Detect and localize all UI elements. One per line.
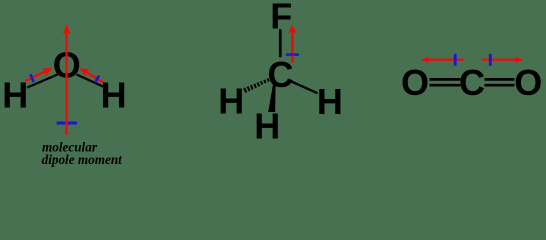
CH3F: C-F bond dipole arrow <box>291 31 294 63</box>
CH3F: solid wedge bond C-H bottom <box>268 83 275 112</box>
svg-text:dipole moment: dipole moment <box>42 152 123 167</box>
water: plus cross on right bond dipole <box>95 76 99 83</box>
svg-text:F: F <box>270 0 292 37</box>
svg-text:H: H <box>254 106 280 147</box>
water: bond dipole arrow left (H to O) <box>25 71 46 81</box>
CH3F: plain bond C-H right <box>290 81 318 93</box>
CH3F: plus cross on dipole <box>286 53 299 56</box>
CO2: bond dipole arrow pointing right <box>482 59 518 61</box>
svg-text:H: H <box>2 75 28 116</box>
svg-text:C: C <box>268 54 294 95</box>
water: plus cross on molecular dipole <box>57 122 77 125</box>
CH3F: hashed wedge bond C-H left <box>244 79 269 93</box>
svg-text:O: O <box>514 62 542 103</box>
water: bond O-H left <box>27 74 58 87</box>
svg-text:H: H <box>317 81 343 122</box>
svg-text:H: H <box>101 75 127 116</box>
CO2: double bond C=O right (upper line) <box>485 78 515 81</box>
CO2: double bond O=C left (upper line) <box>430 78 461 81</box>
water: bond dipole arrow right (H to O) <box>85 71 103 82</box>
CO2: plus cross on left arrow <box>454 54 457 66</box>
CO2: plus cross on right arrow <box>489 54 492 66</box>
CH3F: bond C-F <box>279 29 282 57</box>
water: bond O-H right <box>77 75 104 87</box>
svg-text:O: O <box>401 62 429 103</box>
svg-text:H: H <box>218 81 244 122</box>
CO2: double bond C=O right (lower line) <box>485 84 515 87</box>
svg-text:C: C <box>459 62 485 103</box>
water: molecular dipole arrow (vertical, over O) <box>65 31 67 135</box>
CO2: double bond O=C left (lower line) <box>430 84 461 87</box>
CO2: bond dipole arrow pointing left <box>426 59 463 61</box>
water: plus cross on left bond dipole <box>31 74 34 82</box>
